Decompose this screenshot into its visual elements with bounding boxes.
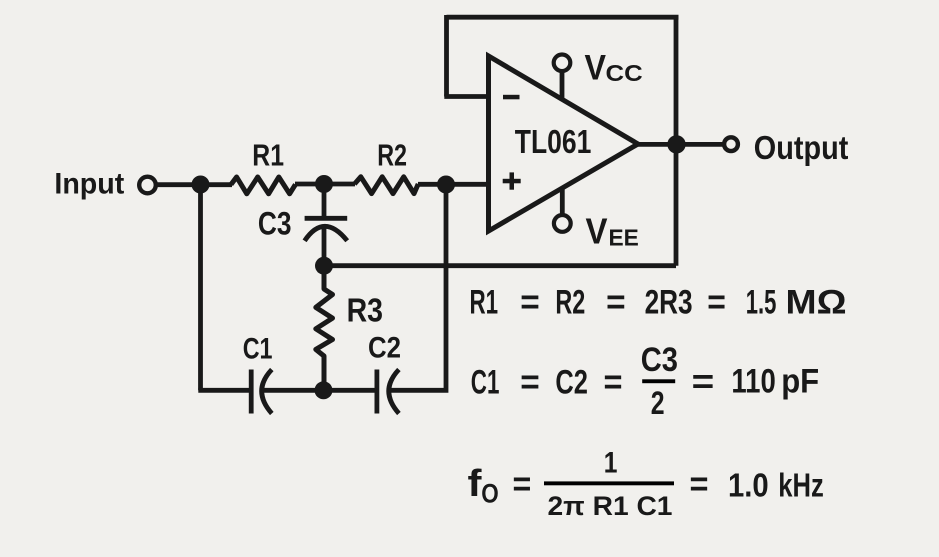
- wire input to node A: [156, 182, 232, 187]
- svg-text:EE: EE: [609, 225, 639, 251]
- svg-text:MΩ: MΩ: [786, 284, 847, 322]
- wire C3 to node E: [322, 228, 327, 267]
- capacitor C2: [374, 370, 379, 414]
- svg-text:f: f: [468, 463, 482, 505]
- wire C1 to node D: [262, 388, 324, 393]
- op-amp U1 triangle: [489, 56, 639, 231]
- output node junction: [667, 135, 685, 153]
- svg-text:R1: R1: [470, 284, 499, 322]
- svg-text:V: V: [585, 49, 607, 88]
- svg-text:Input: Input: [54, 167, 124, 200]
- svg-text:1: 1: [604, 447, 618, 480]
- node B junction: [315, 175, 333, 193]
- svg-text:R2: R2: [377, 137, 407, 172]
- output wire: [637, 142, 724, 147]
- svg-text:CC: CC: [606, 60, 643, 86]
- svg-text:C1: C1: [243, 333, 273, 366]
- svg-text:R1: R1: [252, 137, 284, 172]
- svg-text:2: 2: [651, 385, 665, 421]
- node A junction: [192, 176, 210, 194]
- wire R2 to node C and + input: [418, 182, 489, 187]
- VCC terminal circle: [554, 55, 571, 72]
- wire node D to C2: [323, 388, 377, 393]
- resistor R3: [316, 266, 333, 391]
- op-amp plus sign: [503, 179, 521, 184]
- svg-text:=: =: [520, 364, 540, 402]
- input terminal circle: [139, 177, 156, 194]
- svg-text:Output: Output: [754, 129, 849, 166]
- feedback loop: bottom line from node E to right side: [324, 263, 676, 268]
- output terminal circle: [724, 137, 738, 151]
- svg-text:V: V: [586, 211, 608, 252]
- svg-text:pF: pF: [781, 363, 819, 401]
- svg-text:=: =: [690, 466, 709, 504]
- svg-text:C2: C2: [368, 332, 401, 365]
- VEE terminal circle: [554, 215, 571, 232]
- svg-text:110: 110: [731, 363, 775, 401]
- svg-text:=: =: [513, 466, 532, 504]
- svg-text:C2: C2: [555, 364, 588, 402]
- svg-text:kHz: kHz: [778, 466, 824, 503]
- svg-text:C1: C1: [471, 364, 500, 402]
- svg-text:1.5: 1.5: [746, 284, 777, 322]
- bottom rail left: [198, 388, 251, 393]
- svg-text:=: =: [520, 284, 540, 322]
- svg-text:C3: C3: [641, 341, 678, 379]
- VCC stem: [560, 72, 565, 100]
- svg-text:1.0: 1.0: [728, 466, 769, 503]
- resistor R2: [355, 177, 419, 194]
- feedback top: [447, 15, 679, 20]
- op-amp minus sign: [503, 95, 520, 100]
- svg-text:C3: C3: [258, 205, 292, 241]
- wire node B to R2: [322, 182, 355, 187]
- node E junction: [315, 257, 333, 275]
- svg-text:2R3: 2R3: [645, 284, 693, 322]
- svg-text:2π R1 C1: 2π R1 C1: [548, 491, 673, 521]
- feedback right side: [674, 17, 679, 266]
- svg-text:=: =: [707, 284, 726, 322]
- capacitor C1: [249, 370, 254, 414]
- wire node A down: [198, 185, 203, 391]
- svg-text:=: =: [606, 284, 626, 322]
- svg-text:R2: R2: [555, 284, 585, 322]
- VEE stem: [560, 188, 565, 215]
- node C junction: [437, 176, 455, 194]
- wire R1 to node B: [295, 182, 326, 187]
- feedback left side: [444, 15, 449, 97]
- wire to - input: [444, 94, 488, 99]
- svg-text:=: =: [604, 364, 623, 402]
- bottom rail right + up to node C: [389, 185, 446, 391]
- resistor R1: [231, 177, 295, 194]
- svg-text:=: =: [692, 363, 715, 401]
- svg-text:TL061: TL061: [515, 123, 592, 160]
- capacitor C3: [322, 184, 327, 219]
- svg-text:R3: R3: [347, 292, 383, 329]
- svg-text:O: O: [481, 479, 499, 509]
- node D junction: [315, 381, 333, 399]
